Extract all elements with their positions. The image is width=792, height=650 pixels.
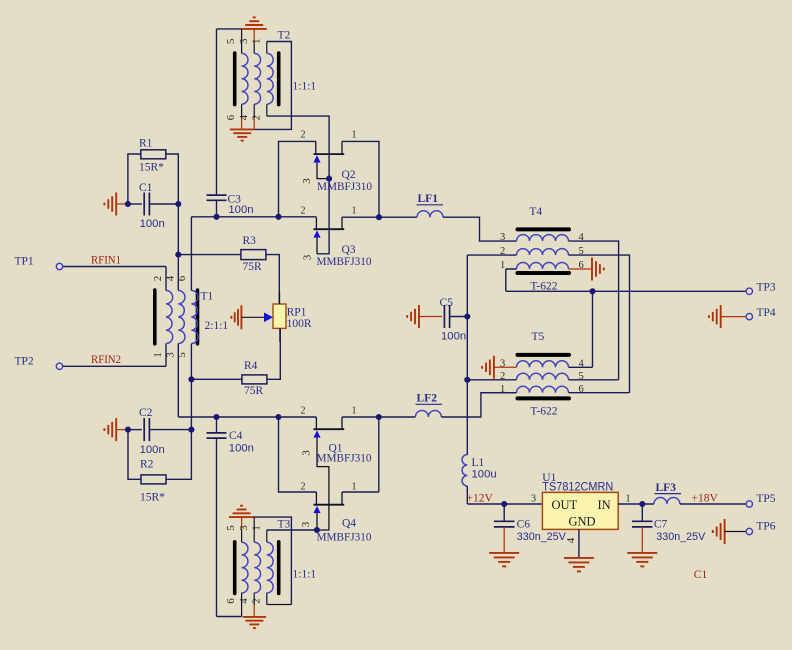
transformer T4 windings	[517, 235, 569, 269]
svg-text:4: 4	[238, 114, 250, 120]
svg-text:4: 4	[579, 232, 585, 243]
svg-text:2: 2	[250, 115, 262, 121]
T5 pin 2 wire	[467, 379, 516, 381]
T4 pin 6 wire	[569, 268, 593, 270]
wire U1 GND pin	[565, 529, 579, 558]
ground (T5 pin3)	[482, 356, 516, 379]
svg-text:Q3: Q3	[342, 244, 356, 256]
svg-text:75R: 75R	[244, 385, 264, 397]
wire Q3 source to LF1	[342, 214, 382, 220]
T5 pin numbers	[500, 358, 585, 394]
ground (C7)	[627, 553, 657, 567]
T2 pin numbers	[225, 38, 262, 120]
svg-text:1: 1	[250, 525, 262, 531]
transformer T3 windings	[242, 542, 274, 593]
svg-text:2: 2	[301, 206, 306, 217]
wire RFIN2	[63, 365, 166, 367]
svg-text:5: 5	[225, 38, 237, 44]
label C1 (sheet)	[694, 569, 708, 581]
svg-text:1: 1	[500, 384, 505, 395]
ground (C2 left)	[104, 418, 128, 441]
T3 pin 6	[241, 593, 243, 617]
wire bottom drain bus	[178, 344, 316, 418]
wire top drain bus	[191, 217, 316, 291]
capacitor C3	[207, 194, 254, 220]
svg-text:2: 2	[301, 130, 306, 141]
svg-text:T1: T1	[201, 291, 214, 303]
T2 pin 3	[253, 42, 255, 54]
wire T2 top bus	[217, 28, 242, 30]
svg-text:1: 1	[352, 206, 357, 217]
T4 pin 5 wire	[569, 255, 630, 393]
svg-text:3: 3	[301, 178, 313, 184]
svg-text:MMBFJ310: MMBFJ310	[317, 531, 372, 543]
svg-text:RFIN2: RFIN2	[91, 354, 121, 366]
svg-text:4: 4	[565, 537, 577, 543]
svg-text:100R: 100R	[287, 318, 312, 330]
svg-text:C5: C5	[440, 297, 454, 309]
inductor LF2	[379, 393, 517, 418]
T2 pin 6	[241, 104, 243, 118]
svg-text:6: 6	[579, 384, 584, 395]
net label RFIN1	[91, 255, 121, 267]
svg-text:TP3: TP3	[757, 282, 776, 294]
svg-text:T4: T4	[529, 206, 542, 218]
svg-text:IN: IN	[598, 498, 611, 512]
wire Q4 source vertical	[342, 417, 379, 492]
transformer T2 core	[235, 53, 279, 105]
T2 label	[278, 30, 291, 42]
T4 pin 2 wire	[467, 254, 516, 256]
svg-text:75R: 75R	[243, 261, 263, 273]
svg-text:3: 3	[500, 232, 505, 243]
svg-text:R2: R2	[140, 459, 154, 471]
T2 pin 4	[253, 104, 255, 118]
svg-text:TP5: TP5	[756, 493, 775, 505]
svg-text:RP1: RP1	[287, 307, 307, 319]
svg-text:R1: R1	[139, 138, 153, 150]
transistor Q2	[301, 130, 373, 193]
transformer T3 core	[235, 542, 279, 594]
svg-text:1: 1	[352, 482, 357, 493]
T3 label	[278, 519, 291, 531]
resistor R4	[188, 328, 280, 397]
ground (C6)	[489, 553, 519, 567]
svg-text:T3: T3	[278, 519, 291, 531]
svg-text:3: 3	[531, 494, 536, 505]
wire T5 pin2 dot	[464, 377, 470, 383]
svg-text:3: 3	[500, 358, 505, 369]
transformer T2 windings	[242, 53, 274, 104]
wire Q4 drain riser	[275, 414, 316, 492]
svg-text:100n: 100n	[140, 444, 165, 456]
T4 pin 4 wire	[569, 241, 619, 380]
capacitor C2	[125, 407, 195, 456]
voltage regulator U1	[531, 472, 631, 529]
transformer T5 core	[518, 355, 570, 399]
svg-text:2: 2	[301, 482, 306, 493]
svg-text:LF3: LF3	[656, 482, 677, 494]
svg-text:15R*: 15R*	[140, 492, 165, 504]
resistor R2	[128, 430, 191, 504]
T3 pin 3	[253, 517, 255, 542]
svg-text:3: 3	[164, 352, 176, 358]
svg-text:1: 1	[152, 352, 164, 358]
net label +18V	[692, 493, 719, 505]
svg-text:1: 1	[500, 260, 505, 271]
svg-text:1: 1	[352, 406, 357, 417]
svg-text:R3: R3	[243, 235, 257, 247]
svg-text:2: 2	[301, 406, 306, 417]
svg-text:C4: C4	[229, 430, 243, 442]
svg-text:6: 6	[225, 598, 237, 604]
svg-text:TP2: TP2	[15, 355, 34, 367]
svg-text:15R*: 15R*	[139, 162, 164, 174]
test point TP2	[15, 355, 63, 369]
wire Q1 source to LF2	[342, 414, 382, 420]
svg-text:T2: T2	[278, 30, 291, 42]
T3 pin 1	[266, 530, 268, 542]
ground (TP6)	[713, 519, 746, 544]
ground (TP4)	[709, 305, 746, 328]
wire power feed vertical	[466, 255, 468, 455]
svg-text:3: 3	[302, 254, 314, 260]
T3 ratio label 1:1:1	[293, 569, 317, 581]
svg-text:R4: R4	[244, 360, 258, 372]
wire T2 pin1 to bottom ground	[254, 42, 291, 130]
test point TP3	[746, 282, 776, 295]
svg-text:C1: C1	[694, 569, 708, 581]
wire T2 pin2 to gates	[267, 116, 329, 254]
T5 type label T-622	[530, 406, 557, 418]
wire to TP3	[506, 288, 746, 294]
transformer T4 core	[518, 229, 570, 273]
svg-text:TP1: TP1	[15, 255, 34, 267]
svg-text:+18V: +18V	[692, 493, 719, 505]
T4 label	[529, 206, 542, 218]
svg-text:100u: 100u	[472, 469, 497, 481]
ground (U1 GND)	[564, 558, 594, 572]
T2 pin 2	[266, 104, 268, 116]
T4 type label T-622	[530, 281, 557, 293]
svg-text:6: 6	[225, 114, 237, 120]
ground (C1 left)	[104, 193, 128, 216]
svg-text:1: 1	[352, 130, 357, 141]
capacitor C5	[440, 297, 471, 342]
svg-text:TS7812CMRN: TS7812CMRN	[542, 480, 613, 494]
ground (T2 top)	[242, 17, 267, 41]
svg-text:5: 5	[225, 525, 237, 531]
svg-text:3: 3	[301, 450, 313, 456]
ground (T4 pin6)	[592, 258, 604, 281]
svg-text:1: 1	[626, 494, 631, 505]
wire Q4 gate dot	[314, 527, 320, 533]
svg-text:C7: C7	[654, 518, 668, 530]
svg-text:1:1:1: 1:1:1	[293, 81, 317, 93]
svg-text:RFIN1: RFIN1	[91, 255, 121, 267]
T1 pin numbers	[152, 275, 188, 358]
transistor Q4	[300, 482, 372, 544]
svg-text:330n_25V: 330n_25V	[656, 531, 705, 543]
wire U1 out	[618, 501, 654, 507]
wire C4 to T3 pin6	[217, 616, 242, 618]
T2 ratio label 1:1:1	[293, 81, 317, 93]
svg-text:Q2: Q2	[342, 169, 356, 181]
T2 pin 5	[241, 29, 243, 54]
svg-text:100n: 100n	[228, 204, 253, 216]
svg-text:+12V: +12V	[467, 493, 494, 505]
svg-text:MMBFJ310: MMBFJ310	[317, 453, 372, 465]
test point TP6	[746, 521, 776, 535]
svg-text:6: 6	[579, 260, 584, 271]
svg-text:MMBFJ310: MMBFJ310	[317, 181, 372, 193]
ground (T3 bottom)	[243, 617, 266, 628]
svg-text:T5: T5	[532, 331, 545, 343]
net label +12V	[467, 493, 494, 505]
svg-text:330n_25V: 330n_25V	[517, 531, 566, 543]
wire +12V rail	[467, 503, 542, 505]
svg-text:LF1: LF1	[418, 193, 439, 205]
ground (T2 bottom)	[230, 117, 255, 141]
T3 pin 5	[241, 530, 243, 543]
wire Q2 source	[342, 141, 379, 217]
svg-text:TP4: TP4	[757, 307, 776, 319]
T3 pin 2	[267, 593, 292, 605]
svg-text:Q4: Q4	[342, 518, 356, 530]
T5 pin 1 wire	[481, 392, 517, 394]
svg-text:1: 1	[250, 39, 262, 45]
T3 pin 4	[253, 593, 255, 617]
wire Q2 drain riser	[275, 141, 315, 219]
svg-text:T-622: T-622	[530, 406, 557, 418]
svg-text:TP6: TP6	[756, 521, 775, 533]
svg-text:3: 3	[238, 38, 250, 44]
svg-text:OUT: OUT	[552, 498, 578, 512]
wire C3 to T2	[216, 29, 218, 195]
svg-text:2:1:1: 2:1:1	[205, 320, 229, 332]
wire Q2 gate dot	[326, 176, 332, 182]
svg-text:4: 4	[164, 275, 176, 281]
svg-text:100n: 100n	[441, 330, 466, 342]
T3 pin numbers	[225, 525, 262, 604]
transformer T1 core	[155, 290, 198, 344]
inductor LF3	[654, 482, 746, 504]
T2 pin 1	[266, 42, 268, 54]
T4 pin numbers	[500, 232, 585, 271]
T5 pin 6 wire	[569, 392, 630, 394]
ground (RP1 wiper)	[231, 305, 264, 329]
wire RFIN1	[63, 266, 166, 268]
resistor R3	[175, 235, 279, 304]
svg-text:3: 3	[238, 525, 250, 531]
test point TP1	[15, 255, 63, 269]
potentiometer RP1	[264, 292, 312, 342]
capacitor C6	[494, 501, 566, 553]
svg-text:2: 2	[500, 371, 505, 382]
svg-text:100n: 100n	[229, 442, 254, 454]
svg-text:2: 2	[152, 276, 164, 282]
svg-text:1:1:1: 1:1:1	[293, 569, 317, 581]
wire T1 pin4 net	[177, 204, 179, 291]
T4 pin 1 wire	[506, 269, 517, 291]
svg-text:4: 4	[238, 598, 250, 604]
capacitor C4	[207, 414, 254, 617]
T1 ratio label 2:1:1	[205, 320, 229, 332]
svg-text:4: 4	[579, 358, 585, 369]
svg-text:5: 5	[579, 246, 584, 257]
T5 pin 4 wire	[569, 291, 593, 367]
svg-text:MMBFJ310: MMBFJ310	[317, 256, 372, 268]
svg-text:C1: C1	[139, 182, 153, 194]
svg-text:L1: L1	[472, 457, 485, 469]
test point TP4	[746, 307, 776, 320]
ground (C5 left)	[407, 305, 442, 328]
capacitor C1	[125, 182, 182, 230]
T5 pin 5 wire	[569, 379, 619, 381]
transformer T1 windings	[166, 291, 198, 344]
resistor R1	[128, 138, 178, 205]
T1 label	[201, 291, 214, 303]
svg-text:C6: C6	[517, 518, 531, 530]
inductor LF1	[379, 193, 517, 241]
svg-text:6: 6	[176, 275, 188, 281]
wire T1 pin2	[165, 267, 167, 291]
svg-text:GND: GND	[569, 515, 596, 529]
inductor L1	[462, 455, 497, 505]
test point TP5	[746, 493, 776, 507]
transistor Q1	[301, 406, 372, 531]
svg-text:5: 5	[579, 371, 584, 382]
wire T3 pin1 to Q4 gate	[267, 529, 317, 531]
T5 label	[532, 331, 545, 343]
transformer T5 windings	[517, 361, 569, 393]
transistor Q3	[301, 206, 372, 268]
net label RFIN2	[91, 354, 121, 366]
svg-text:2: 2	[250, 598, 262, 604]
svg-text:2: 2	[500, 246, 505, 257]
svg-text:3: 3	[300, 521, 312, 527]
wire T1 pin1	[165, 344, 167, 367]
wire T1 pin5 net	[190, 344, 192, 430]
svg-text:LF2: LF2	[417, 393, 438, 405]
capacitor C7	[632, 504, 706, 553]
ground (T3 top)	[229, 506, 254, 530]
wire T3 top bus	[254, 517, 291, 604]
svg-text:C2: C2	[139, 407, 153, 419]
svg-text:100n: 100n	[140, 218, 165, 230]
